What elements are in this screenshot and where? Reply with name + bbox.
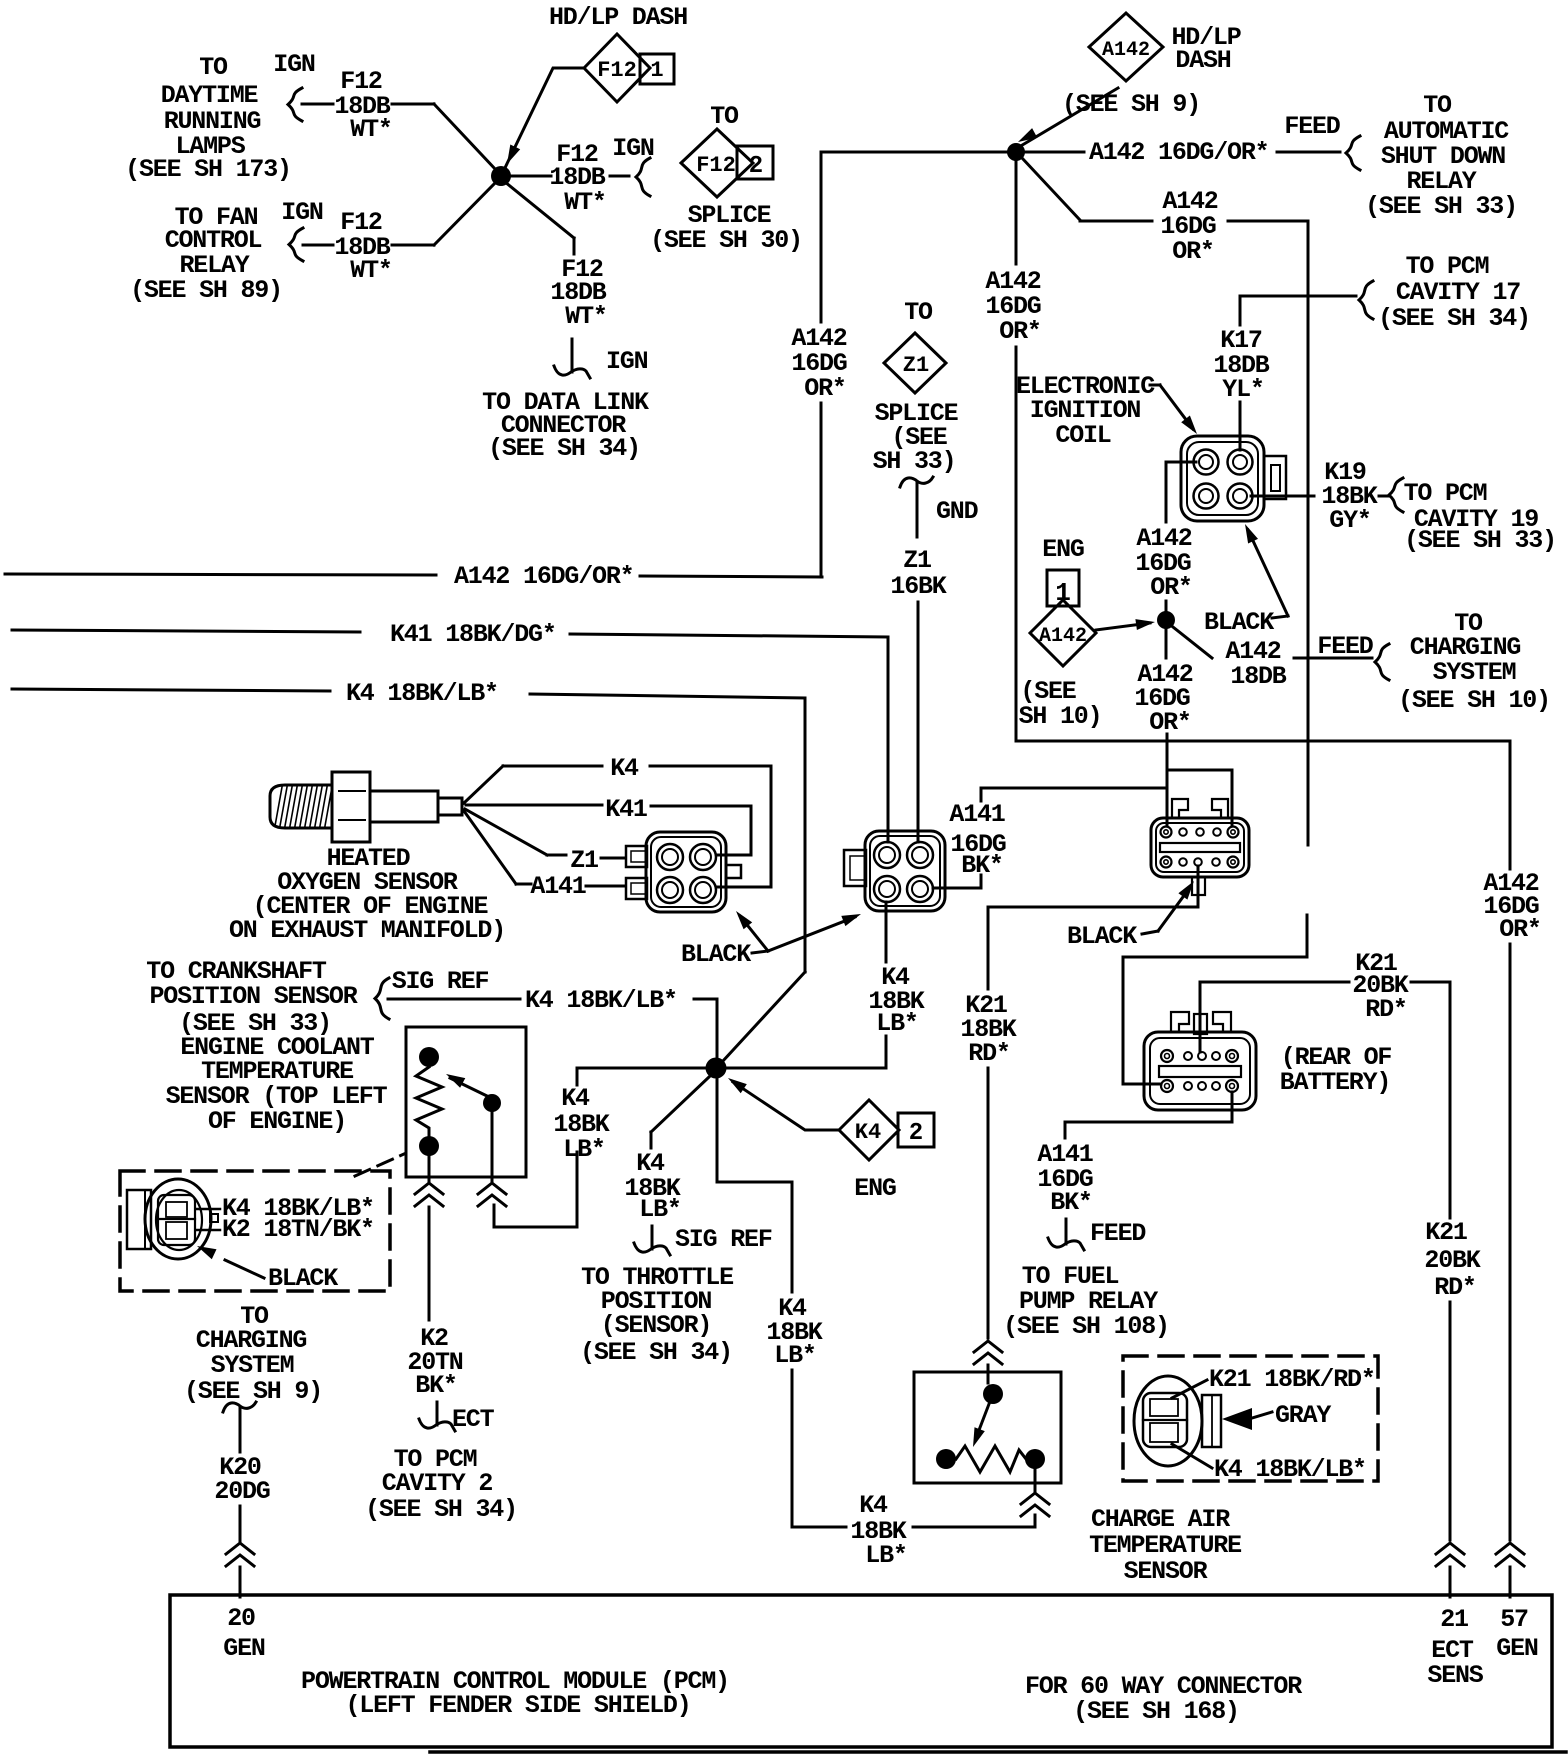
svg-text:TO PCM: TO PCM: [1404, 479, 1487, 508]
svg-text:TO: TO: [710, 102, 739, 131]
svg-text:SYSTEM: SYSTEM: [211, 1351, 294, 1380]
svg-text:DASH: DASH: [1175, 46, 1230, 75]
svg-text:(SEE SH 173): (SEE SH 173): [125, 155, 291, 184]
svg-text:ECT: ECT: [452, 1405, 495, 1434]
svg-text:OR*: OR*: [1149, 708, 1190, 737]
svg-text:A142 16DG/OR*: A142 16DG/OR*: [1089, 138, 1268, 167]
svg-text:(SENSOR): (SENSOR): [601, 1311, 711, 1340]
svg-text:Z1: Z1: [570, 846, 598, 875]
svg-text:ENG: ENG: [1042, 535, 1084, 564]
svg-text:CHARGE AIR: CHARGE AIR: [1091, 1505, 1230, 1534]
svg-text:LB*: LB*: [876, 1009, 917, 1038]
svg-text:IGN: IGN: [281, 198, 323, 227]
svg-text:POSITION SENSOR: POSITION SENSOR: [149, 982, 357, 1011]
svg-text:(SEE SH 34): (SEE SH 34): [1378, 304, 1530, 333]
svg-text:LB*: LB*: [563, 1135, 604, 1164]
svg-text:1: 1: [650, 58, 663, 83]
svg-text:20DG: 20DG: [214, 1477, 269, 1506]
svg-text:SENS: SENS: [1427, 1661, 1483, 1690]
svg-text:ENG: ENG: [854, 1174, 896, 1203]
svg-text:K4: K4: [561, 1084, 590, 1113]
svg-text:TO: TO: [1423, 91, 1452, 120]
svg-text:(SEE SH 34): (SEE SH 34): [488, 434, 640, 463]
svg-text:WT*: WT*: [564, 188, 605, 217]
svg-text:21: 21: [1440, 1605, 1468, 1634]
svg-text:SH 33): SH 33): [873, 447, 956, 476]
svg-text:(SEE SH 89): (SEE SH 89): [130, 276, 282, 305]
svg-text:F12: F12: [597, 58, 637, 83]
svg-text:K41 18BK/DG*: K41 18BK/DG*: [390, 620, 556, 649]
svg-text:K21: K21: [1425, 1218, 1467, 1247]
svg-text:2: 2: [749, 153, 763, 180]
svg-text:OR*: OR*: [1499, 915, 1540, 944]
svg-text:SIG REF: SIG REF: [392, 967, 489, 996]
svg-text:RD*: RD*: [968, 1039, 1009, 1068]
svg-text:WT*: WT*: [350, 115, 391, 144]
svg-text:IGN: IGN: [612, 134, 654, 163]
svg-text:GEN: GEN: [223, 1634, 265, 1663]
svg-text:CAVITY 17: CAVITY 17: [1396, 278, 1520, 307]
svg-text:BK*: BK*: [961, 851, 1002, 880]
svg-text:Z1: Z1: [903, 546, 931, 575]
svg-text:K4 18BK/LB*: K4 18BK/LB*: [346, 679, 498, 708]
svg-text:K4: K4: [859, 1491, 888, 1520]
svg-text:(SEE SH 9): (SEE SH 9): [184, 1377, 322, 1406]
svg-text:K4: K4: [610, 754, 639, 783]
svg-text:(SEE SH 10): (SEE SH 10): [1398, 686, 1550, 715]
svg-text:LB*: LB*: [639, 1195, 680, 1224]
svg-text:F12: F12: [696, 153, 736, 178]
svg-text:A141: A141: [530, 872, 585, 901]
svg-text:LB*: LB*: [774, 1341, 815, 1370]
svg-text:(LEFT FENDER SIDE SHIELD): (LEFT FENDER SIDE SHIELD): [345, 1691, 690, 1720]
svg-text:WT*: WT*: [565, 302, 606, 331]
svg-text:1: 1: [1055, 578, 1071, 608]
svg-text:GY*: GY*: [1329, 506, 1370, 535]
svg-text:FEED: FEED: [1284, 112, 1340, 141]
svg-text:(SEE SH 34): (SEE SH 34): [580, 1338, 732, 1367]
svg-text:K2 18TN/BK*: K2 18TN/BK*: [222, 1215, 374, 1244]
svg-text:CAVITY 2: CAVITY 2: [382, 1469, 493, 1498]
svg-text:RD*: RD*: [1434, 1273, 1475, 1302]
svg-text:BLACK: BLACK: [1204, 608, 1274, 637]
svg-text:BLACK: BLACK: [1067, 922, 1137, 951]
svg-text:(SEE SH 168): (SEE SH 168): [1073, 1697, 1239, 1726]
svg-text:K4 18BK/LB*: K4 18BK/LB*: [1214, 1455, 1366, 1484]
svg-text:2: 2: [909, 1120, 923, 1147]
svg-text:BK*: BK*: [415, 1371, 456, 1400]
svg-text:57: 57: [1500, 1605, 1528, 1634]
svg-text:TEMPERATURE: TEMPERATURE: [1089, 1531, 1241, 1560]
svg-text:GND: GND: [936, 497, 979, 526]
svg-text:FEED: FEED: [1090, 1219, 1146, 1248]
svg-text:(SEE SH 33): (SEE SH 33): [1365, 192, 1517, 221]
svg-text:FEED: FEED: [1317, 632, 1373, 661]
svg-text:BLACK: BLACK: [268, 1264, 338, 1293]
svg-text:OR*: OR*: [1172, 237, 1213, 266]
svg-text:ON EXHAUST MANIFOLD): ON EXHAUST MANIFOLD): [229, 916, 505, 945]
svg-text:TO PCM: TO PCM: [1406, 252, 1489, 281]
svg-text:IGN: IGN: [273, 50, 315, 79]
svg-text:A142: A142: [1102, 39, 1150, 62]
svg-text:SIG REF: SIG REF: [675, 1225, 772, 1254]
svg-text:OF ENGINE): OF ENGINE): [208, 1107, 346, 1136]
svg-text:COIL: COIL: [1055, 421, 1110, 450]
svg-text:20BK: 20BK: [1424, 1246, 1480, 1275]
svg-text:GRAY: GRAY: [1275, 1401, 1331, 1430]
svg-text:TO: TO: [199, 53, 228, 82]
svg-text:OR*: OR*: [804, 374, 845, 403]
svg-text:HD/LP DASH: HD/LP DASH: [549, 3, 687, 32]
svg-text:K21 18BK/RD*: K21 18BK/RD*: [1209, 1365, 1375, 1394]
svg-text:(SEE SH 34): (SEE SH 34): [365, 1495, 517, 1524]
svg-text:A142: A142: [1039, 625, 1087, 648]
svg-text:OR*: OR*: [1150, 573, 1191, 602]
svg-text:20: 20: [227, 1604, 255, 1633]
svg-text:BK*: BK*: [1050, 1188, 1091, 1217]
svg-text:GEN: GEN: [1496, 1634, 1538, 1663]
svg-text:K4 18BK/LB*: K4 18BK/LB*: [525, 986, 677, 1015]
svg-text:A141: A141: [949, 800, 1004, 829]
svg-text:K41: K41: [605, 795, 647, 824]
svg-text:A142 16DG/OR*: A142 16DG/OR*: [454, 562, 633, 591]
svg-text:YL*: YL*: [1222, 375, 1263, 404]
svg-text:BATTERY): BATTERY): [1280, 1068, 1390, 1097]
svg-text:SYSTEM: SYSTEM: [1433, 658, 1516, 687]
svg-text:IGN: IGN: [606, 347, 648, 376]
svg-text:WT*: WT*: [350, 256, 391, 285]
svg-text:DAYTIME: DAYTIME: [161, 81, 258, 110]
svg-text:(SEE SH 108): (SEE SH 108): [1003, 1312, 1169, 1341]
svg-text:BLACK: BLACK: [681, 940, 751, 969]
svg-text:SH 10): SH 10): [1019, 702, 1102, 731]
svg-text:18DB: 18DB: [1230, 662, 1286, 691]
svg-text:RD*: RD*: [1365, 995, 1406, 1024]
svg-text:SENSOR: SENSOR: [1124, 1557, 1208, 1586]
svg-text:(SEE SH 9): (SEE SH 9): [1062, 90, 1200, 119]
svg-text:Z1: Z1: [903, 353, 929, 378]
svg-text:LB*: LB*: [865, 1541, 906, 1570]
svg-text:TO: TO: [904, 298, 933, 327]
svg-text:(SEE SH 33): (SEE SH 33): [1404, 526, 1556, 555]
svg-text:(SEE SH 30): (SEE SH 30): [650, 226, 802, 255]
svg-text:OR*: OR*: [999, 317, 1040, 346]
svg-text:K4: K4: [855, 1120, 881, 1145]
svg-text:16BK: 16BK: [890, 572, 946, 601]
